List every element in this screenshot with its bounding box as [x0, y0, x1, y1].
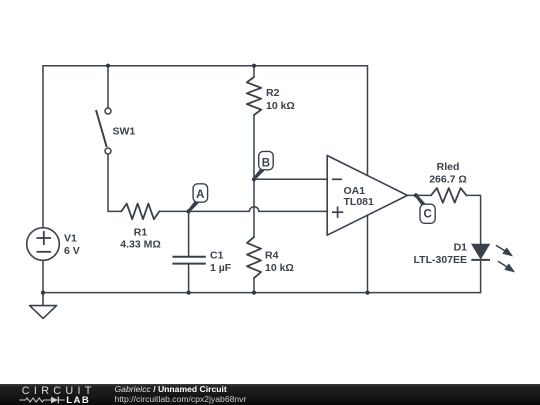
wire op-amp output — [407, 194, 431, 196]
wire bottom rail — [43, 292, 481, 294]
svg-text:R2: R2 — [266, 87, 280, 99]
svg-text:V1: V1 — [64, 233, 77, 245]
op-amp U1 (OA1) triangle body — [327, 156, 407, 236]
junction op-amp supply bottom rail — [365, 291, 369, 295]
junction R2 top rail — [252, 64, 256, 68]
node A flag — [188, 184, 208, 213]
wire C1 bottom lead — [188, 264, 190, 292]
capacitor C1 — [172, 257, 205, 264]
resistor R2 zigzag — [247, 77, 261, 115]
svg-text:4.33 MΩ: 4.33 MΩ — [120, 239, 161, 251]
junction node A — [187, 209, 191, 213]
wire R4 bottom lead — [253, 278, 255, 293]
wire R2 top lead — [253, 66, 255, 77]
svg-text:266.7 Ω: 266.7 Ω — [429, 173, 467, 185]
svg-text:SW1: SW1 — [113, 126, 136, 138]
junction R4 bottom rail — [252, 291, 256, 295]
wire node B to op-amp minus input — [254, 178, 327, 180]
resistor R4 zigzag — [247, 237, 261, 278]
op-amp OA1 non-inverting input pin mark — [332, 207, 343, 218]
junction node B — [252, 177, 256, 181]
junction ground rail — [41, 291, 45, 295]
wire LED bottom lead — [480, 261, 482, 293]
junction C1 bottom rail — [187, 291, 191, 295]
wire R1 to node A — [159, 210, 188, 212]
resistor R1 zigzag — [121, 204, 159, 220]
LED D1 — [471, 244, 514, 271]
svg-text:6 V: 6 V — [64, 245, 80, 257]
svg-text:Rled: Rled — [437, 161, 460, 173]
svg-text:LAB: LAB — [66, 395, 90, 405]
svg-text:C: C — [423, 209, 431, 221]
svg-text:10 kΩ: 10 kΩ — [266, 100, 295, 112]
switch SW1 — [96, 108, 111, 154]
wire node A to op-amp plus input (with hop) — [189, 207, 328, 212]
svg-text:LTL-307EE: LTL-307EE — [414, 254, 467, 266]
wire node A down to C1 — [188, 211, 190, 255]
junction node C — [414, 193, 418, 197]
svg-text:D1: D1 — [454, 241, 468, 253]
svg-text:1 µF: 1 µF — [210, 262, 232, 274]
svg-text:A: A — [196, 189, 204, 201]
svg-text:TL081: TL081 — [344, 196, 375, 208]
svg-text:C1: C1 — [210, 250, 224, 262]
node B flag — [253, 151, 273, 180]
svg-text:R4: R4 — [265, 250, 279, 262]
wire switch top lead — [107, 66, 109, 108]
svg-text:OA1: OA1 — [344, 185, 366, 197]
CircuitLab logo — [0, 384, 110, 405]
wire op-amp power rail vertical — [367, 66, 369, 293]
svg-text:10 kΩ: 10 kΩ — [265, 262, 294, 274]
node C flag — [415, 195, 435, 224]
wire left rail lower — [42, 260, 44, 292]
resistor Rled zigzag — [431, 188, 467, 203]
svg-text:B: B — [262, 157, 270, 169]
wire switch bottom lead to R1 — [108, 154, 121, 211]
voltage source V1 — [27, 228, 60, 261]
footer bar — [0, 384, 540, 405]
ground — [30, 293, 57, 319]
junction SW1 top rail — [106, 64, 110, 68]
op-amp OA1 inverting input pin mark — [332, 178, 342, 180]
wire top rail — [43, 65, 368, 67]
svg-text:R1: R1 — [134, 227, 148, 239]
wire node B down to R4 — [253, 179, 255, 237]
wire left rail upper — [42, 66, 44, 228]
wire R2 bottom to node B — [253, 115, 255, 179]
wire Rled to LED column — [467, 195, 481, 244]
